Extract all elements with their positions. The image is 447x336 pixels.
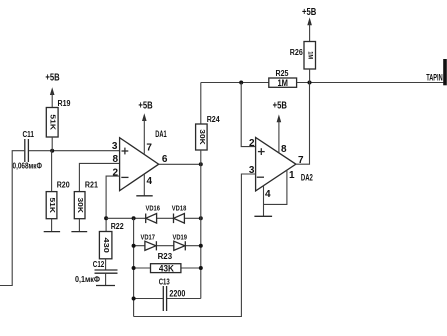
resistor R26 xyxy=(290,42,316,83)
diode VD19 xyxy=(173,235,188,251)
resistor R23 xyxy=(151,252,181,273)
svg-text:VD18: VD18 xyxy=(172,206,187,213)
svg-text:8: 8 xyxy=(281,144,287,155)
power +5B above DA2 pin 8 xyxy=(273,101,287,153)
svg-text:R24: R24 xyxy=(207,115,220,124)
svg-text:VD16: VD16 xyxy=(146,206,161,213)
svg-text:4: 4 xyxy=(265,189,271,200)
wire DA2 pin 4 down xyxy=(263,186,265,217)
wire DA1 output pin 6 to R24 node xyxy=(159,163,201,165)
svg-text:VD19: VD19 xyxy=(173,235,188,242)
svg-text:1: 1 xyxy=(289,170,295,181)
svg-text:VD17: VD17 xyxy=(141,235,156,242)
power +5B above R26 xyxy=(302,7,316,42)
wire R24 top to R25 xyxy=(201,82,269,84)
node junction DA2 pin2 riser xyxy=(239,81,243,85)
svg-text:3: 3 xyxy=(112,141,118,152)
row 4 wire through C13 xyxy=(134,298,201,300)
svg-text:7: 7 xyxy=(146,142,152,153)
svg-text:C13: C13 xyxy=(159,278,170,287)
svg-text:0,068мкФ: 0,068мкФ xyxy=(13,161,43,170)
svg-text:+5B: +5B xyxy=(45,73,59,84)
diode VD16 xyxy=(146,206,161,224)
svg-text:R25: R25 xyxy=(276,69,289,78)
svg-text:2: 2 xyxy=(249,138,255,149)
power +5B above R19 xyxy=(45,73,59,108)
svg-text:43K: 43K xyxy=(159,263,174,273)
svg-text:30K: 30K xyxy=(198,129,205,145)
diode row 1 wire xyxy=(106,217,201,219)
capacitor C11 xyxy=(13,130,43,170)
node junction row1 right vertical xyxy=(199,216,203,220)
svg-text:1M: 1M xyxy=(277,78,288,89)
right vertical of diode network (from R24/DA1 out) xyxy=(200,164,202,298)
svg-text:8: 8 xyxy=(112,154,118,165)
svg-text:R19: R19 xyxy=(58,99,71,108)
wire input from left edge to C11 xyxy=(0,151,24,286)
resistor R22 xyxy=(99,222,124,270)
svg-text:R21: R21 xyxy=(85,181,98,190)
wire DA2 pin 1 to pin 4 xyxy=(264,170,287,205)
svg-text:TAPIN: TAPIN xyxy=(426,72,443,83)
svg-text:30K: 30K xyxy=(76,197,83,213)
svg-text:+5B: +5B xyxy=(302,7,316,18)
svg-text:1M: 1M xyxy=(306,51,313,59)
wire DA2 pin 3 down and left to bottom rail xyxy=(134,174,256,317)
svg-text:R20: R20 xyxy=(57,181,70,190)
node junction row3 left xyxy=(132,266,136,270)
wire DA2 pin 2 riser xyxy=(241,83,255,147)
svg-text:+5B: +5B xyxy=(273,101,287,112)
svg-text:R23: R23 xyxy=(158,252,173,261)
svg-text:R22: R22 xyxy=(111,222,124,231)
ground DA2 xyxy=(254,215,272,217)
wire DA1 pin 2 to R22 node xyxy=(106,176,120,231)
ground R20 xyxy=(44,231,60,233)
resistor R20 xyxy=(46,151,70,232)
op-amp DA2 xyxy=(256,137,313,191)
left vertical of diode network xyxy=(133,218,135,316)
svg-text:430: 430 xyxy=(102,237,109,253)
svg-text:DA1: DA1 xyxy=(155,129,167,139)
resistor R19 xyxy=(46,99,71,151)
svg-text:51K: 51K xyxy=(48,197,55,213)
svg-text:51K: 51K xyxy=(49,114,56,130)
op-amp DA1 xyxy=(120,129,167,191)
node junction pin2/R22 column meets diode row 1 xyxy=(104,216,108,220)
diode row 2 wire xyxy=(134,245,201,247)
TAPIN terminal bar xyxy=(443,59,447,85)
wire C11 to DA1 pin 3 xyxy=(29,150,120,152)
capacitor C12 xyxy=(75,260,118,286)
node junction row2 left xyxy=(132,244,136,248)
node junction row2 right xyxy=(199,244,203,248)
svg-text:R26: R26 xyxy=(290,48,303,57)
svg-text:4: 4 xyxy=(147,176,153,187)
wire DA1 pin 8 to R21 xyxy=(79,163,119,191)
ground DA1 pin 4 xyxy=(136,174,152,196)
node junction R26 bottom / DA2 pin7 xyxy=(308,81,312,85)
svg-text:C11: C11 xyxy=(23,130,35,139)
diode VD18 xyxy=(172,206,187,224)
svg-text:+5B: +5B xyxy=(138,100,152,111)
wire DA2 pin 7 output up to TAPIN line xyxy=(296,83,310,165)
resistor R21 xyxy=(74,181,98,232)
diode VD17 xyxy=(141,235,157,251)
svg-text:6: 6 xyxy=(162,154,168,165)
ground R21 xyxy=(71,231,87,233)
node junction R24 bottom / DA1 output xyxy=(199,162,203,166)
capacitor C13 xyxy=(159,278,186,311)
node junction row3 right xyxy=(199,266,203,270)
svg-text:C12: C12 xyxy=(93,260,105,269)
resistor R24 xyxy=(196,83,221,165)
svg-text:0,1мкФ: 0,1мкФ xyxy=(75,275,100,284)
svg-text:DA2: DA2 xyxy=(301,173,313,183)
ground C12 xyxy=(96,285,115,287)
node junction row4 left xyxy=(132,297,136,301)
wire R25 to TAPIN xyxy=(297,82,444,84)
node junction row1 left vertical xyxy=(132,216,136,220)
node junction R19/R20 on input wire xyxy=(50,149,54,153)
power +5B above DA1 pin 7 xyxy=(138,100,152,153)
resistor R25 xyxy=(269,69,297,89)
svg-text:2200: 2200 xyxy=(169,288,185,298)
diode row 3 wire (R23 row) xyxy=(134,267,201,269)
